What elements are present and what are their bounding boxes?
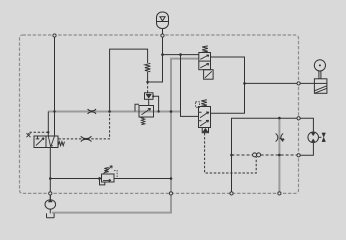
pump <box>45 195 56 209</box>
wire: coupling line y=155.3 dashed <box>232 154 297 156</box>
wire: port P drop x=54.5 <box>54 37 56 136</box>
relief valve R1 <box>135 104 154 125</box>
motor with fan <box>308 132 326 143</box>
orifice on main line <box>88 109 96 114</box>
pilot check valve (relief cluster) <box>145 93 154 106</box>
throttle X on DV pilot <box>81 136 92 141</box>
wire: gauge line y=83.4 <box>245 82 315 84</box>
compensator valve V1 <box>199 46 213 79</box>
wire: DV pilot dashed right with throttle <box>59 112 110 139</box>
port ring gauge <box>297 82 300 85</box>
coupling circles <box>253 153 261 157</box>
throttle X on cooler branch <box>276 134 285 142</box>
port ring P1 (pump inlet boundary) <box>53 34 56 37</box>
wire: pump tank stem <box>49 209 51 213</box>
wire: valve A drop x=48.3 <box>47 112 49 137</box>
wire: pump riser x=50 <box>49 148 51 200</box>
port ring pump <box>49 192 52 195</box>
wire: accumulator drop x=162.5 <box>148 37 163 82</box>
wire: DV pilot dashed left <box>29 132 49 134</box>
wire: pilot dashed below coil <box>147 82 149 93</box>
port ring coupling <box>297 154 300 157</box>
wire: cooler branch x=279.4 (grey) <box>278 118 280 192</box>
enclosure boundary (manifold) <box>20 35 299 193</box>
relief valve R2 (bottom) <box>99 166 117 185</box>
wire: relief/drain line y=178.5 <box>50 178 171 180</box>
wire: supply to compensator y=54.6 <box>163 54 199 56</box>
directional valve DV1 <box>34 136 65 148</box>
wire: relief tap to main line <box>153 96 158 111</box>
wire: main pressure line y=111.5 (grey) <box>48 111 180 113</box>
wire: coil element drop x=147.6 <box>147 72 149 82</box>
pressure gauge <box>314 60 325 79</box>
port ring T3 <box>278 192 281 195</box>
wire: tank return line x=171 (grey) <box>52 59 199 213</box>
plugged pilot port X <box>27 133 31 137</box>
wire: pilot drain dashed from reducing valve <box>205 133 257 173</box>
port ring accumulator <box>161 34 164 37</box>
port ring service <box>297 117 300 120</box>
wire: drop to reducing valve x=180.5 <box>181 55 199 117</box>
wire: service line x=231.5 / y=118 <box>232 118 314 191</box>
coil / damping orifice element <box>145 63 151 72</box>
reducing valve V2 <box>196 100 211 133</box>
wire: compensator out to gauge tee / reducing valve <box>211 57 245 113</box>
wire: branch x=109.6 / y=49.1 <box>110 49 148 111</box>
tank <box>47 213 55 217</box>
port ring T2 <box>230 192 233 195</box>
port ring tank <box>169 192 172 195</box>
accumulator <box>157 12 169 34</box>
gauge isolator block <box>314 79 327 94</box>
